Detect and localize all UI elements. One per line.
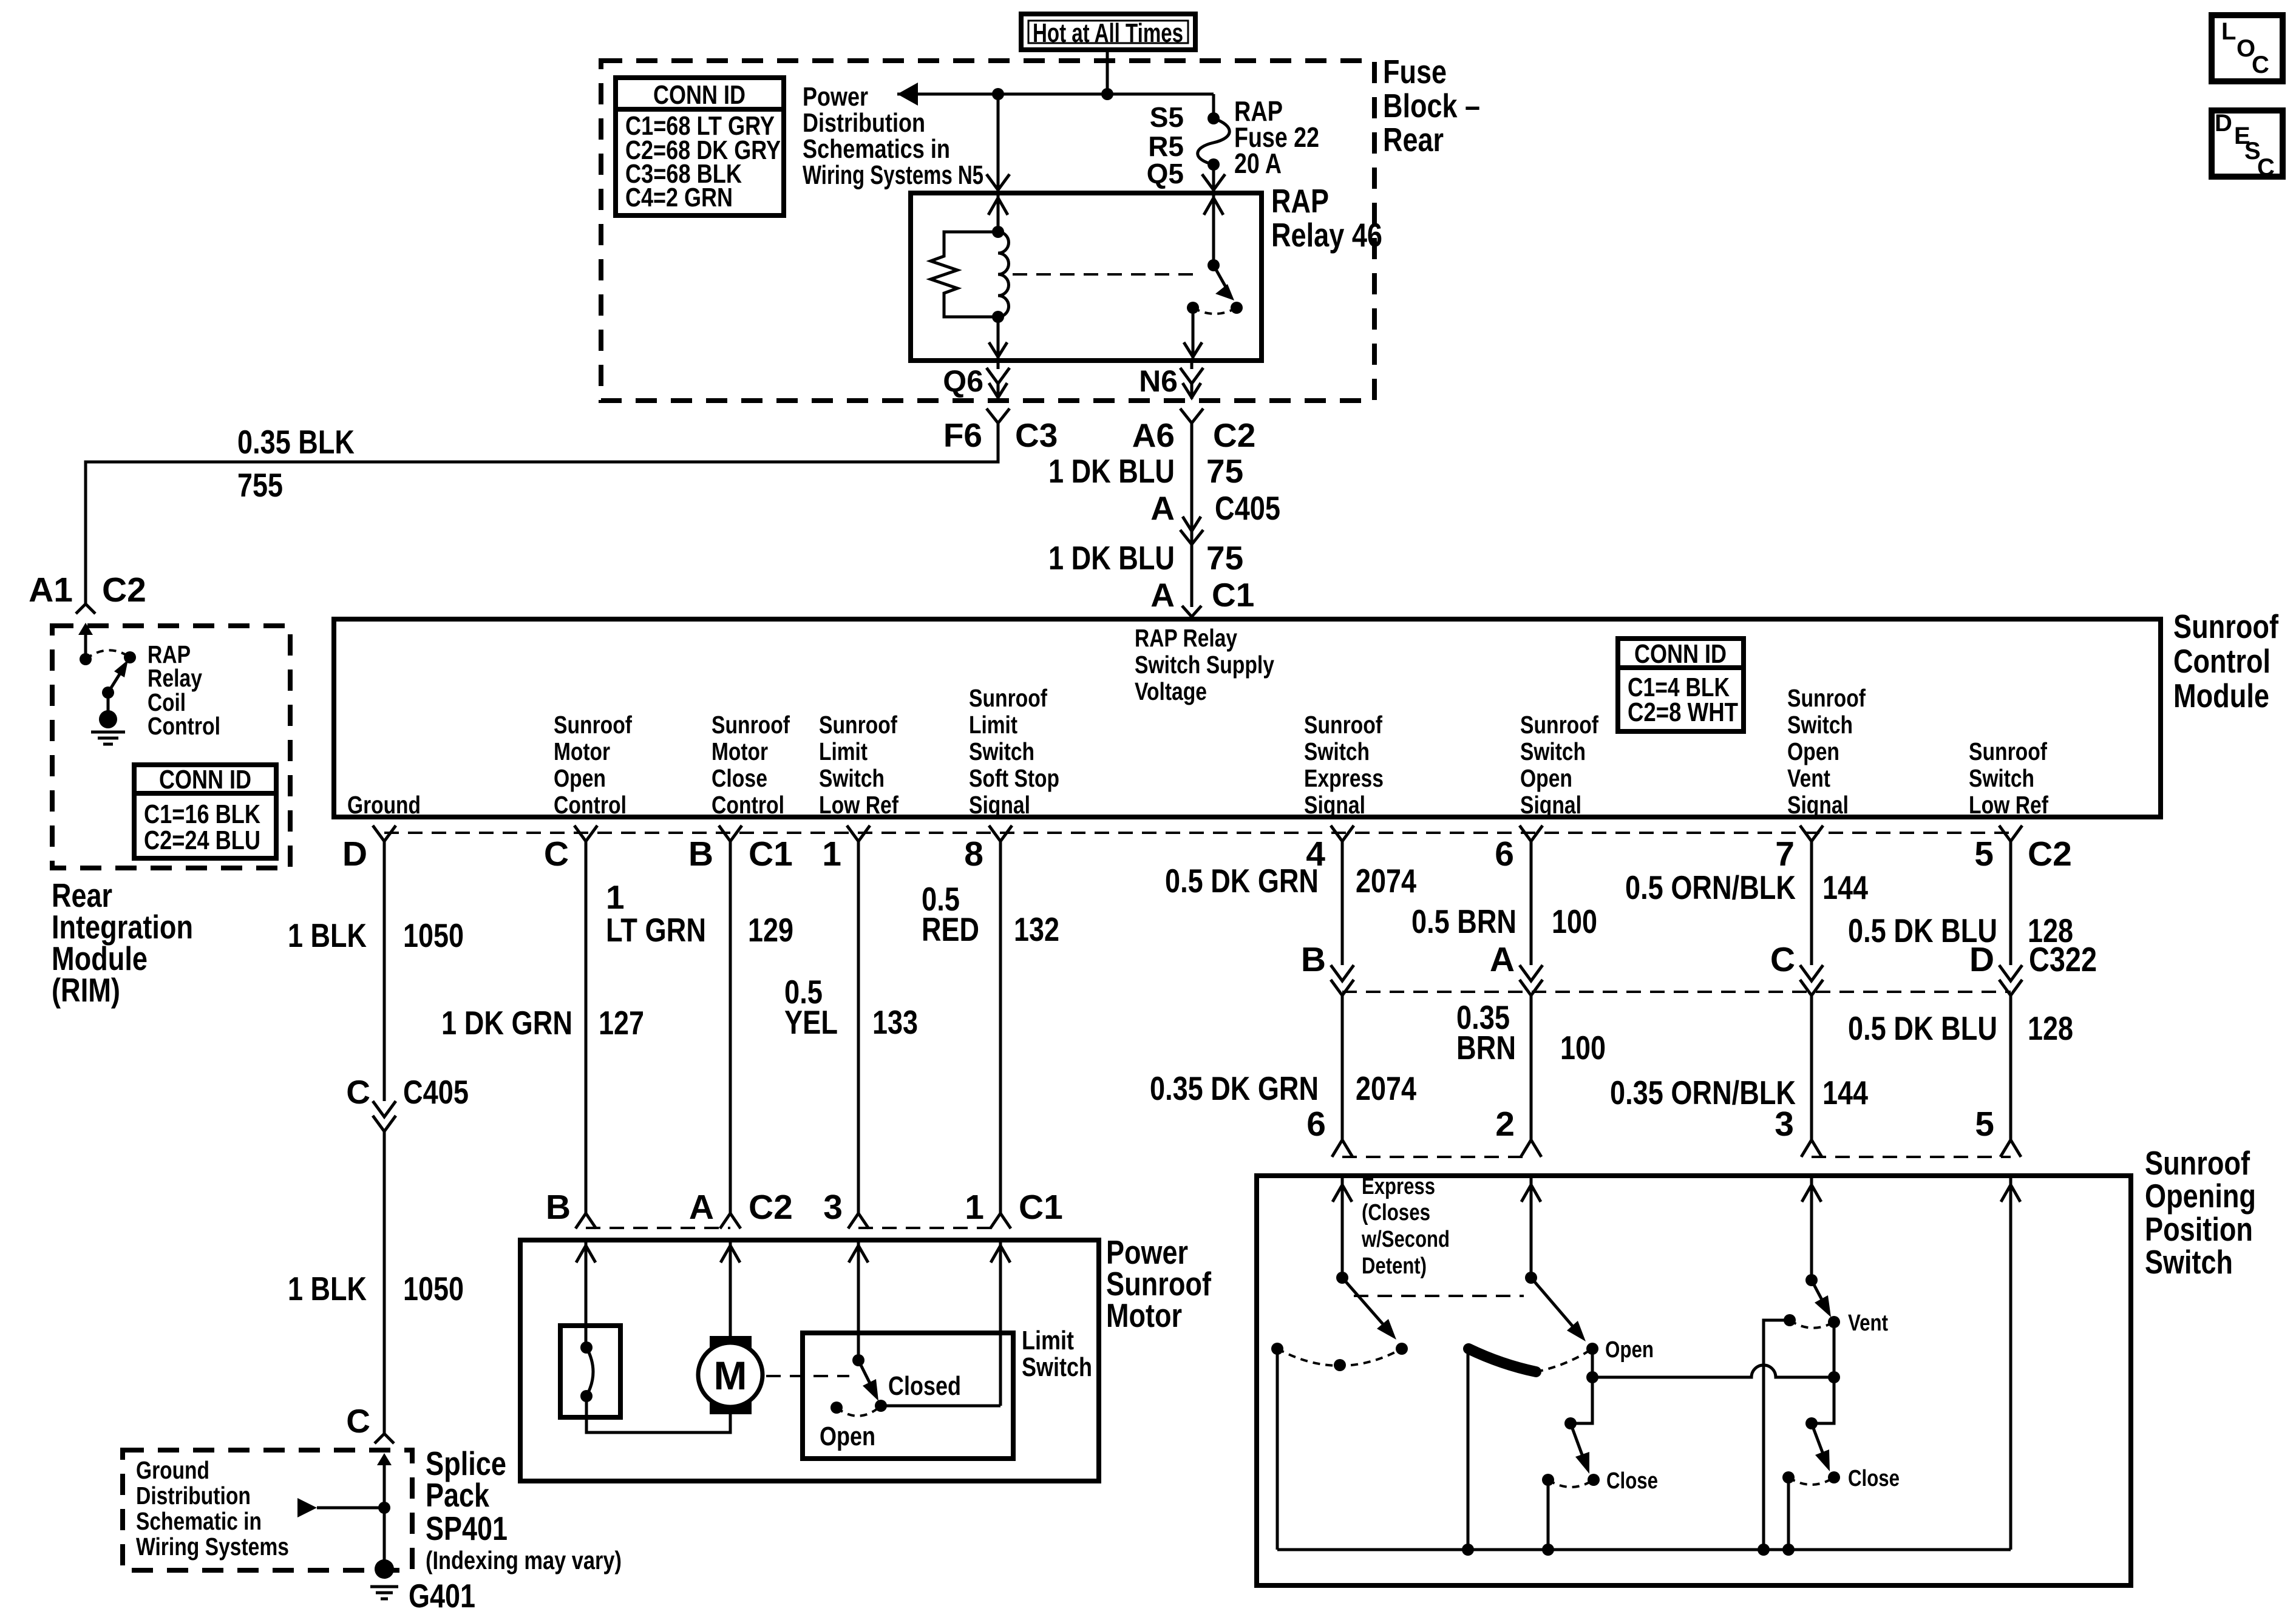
svg-text:Signal: Signal [1304, 791, 1365, 819]
svg-text:RAP Relay: RAP Relay [1135, 624, 1237, 652]
connector chevron at module pin [989, 825, 1012, 841]
motor feed wire entry arrow [721, 1246, 740, 1263]
vent throw dashed arc [1790, 1320, 1834, 1328]
svg-text:C2: C2 [1213, 416, 1255, 454]
in-line connector C322 double chevron [1999, 965, 2022, 981]
svg-text:C405: C405 [403, 1073, 469, 1111]
open switch wire inside [1530, 1176, 1533, 1278]
svg-text:1 DK BLU: 1 DK BLU [1048, 452, 1175, 490]
svg-text:Wiring Systems: Wiring Systems [136, 1533, 289, 1561]
svg-text:0.5 ORN/BLK: 0.5 ORN/BLK [1625, 869, 1796, 906]
wire from bus down to RAP relay coil [997, 94, 1000, 193]
svg-text:C405: C405 [1215, 489, 1280, 527]
ground wire to splice pack [383, 1131, 386, 1434]
wire closed contact to pin 1 wire [881, 1405, 1000, 1408]
svg-text:3: 3 [1775, 1105, 1794, 1144]
sunroof motor open control wire from pin C [585, 841, 588, 1213]
wire to vent close pivot [1812, 1377, 1834, 1423]
Close contact node right [1588, 1474, 1600, 1486]
svg-text:C2: C2 [102, 571, 146, 609]
open switch pivot node [1525, 1272, 1537, 1284]
svg-text:Switch: Switch [2145, 1243, 2233, 1281]
wire open row to vent column with hop [1592, 1365, 1834, 1377]
wire label 0.5 DK GRN 2074 [1165, 862, 1416, 900]
RIM chassis ground symbol [91, 732, 125, 744]
Power Sunroof Motor box [520, 1240, 1099, 1481]
relay switch pivot node [1207, 259, 1220, 271]
svg-text:20 A: 20 A [1234, 147, 1282, 179]
motor feed wire entry arrow [991, 1246, 1010, 1263]
svg-text:Open: Open [1605, 1337, 1654, 1363]
wire label 0.35 DK GRN 2074 [1150, 1070, 1416, 1107]
svg-text:Motor: Motor [1106, 1297, 1182, 1334]
svg-text:Open: Open [554, 764, 606, 792]
splice pack label [426, 1445, 622, 1575]
wire label 0.5 DK BLU 128 [1848, 912, 2073, 949]
svg-text:Control: Control [712, 791, 784, 819]
position switch connector dashed line right [1812, 1156, 2011, 1158]
svg-text:Open: Open [1787, 737, 1839, 765]
svg-text:Voltage: Voltage [1135, 677, 1207, 705]
express label [1361, 1174, 1450, 1279]
LOC reference box [2212, 15, 2283, 81]
open wire to position switch [1530, 995, 1533, 1140]
wire open contact down [1591, 1349, 1594, 1377]
svg-text:BRN: BRN [1456, 1029, 1516, 1066]
vent close switch arm [1812, 1423, 1824, 1456]
svg-text:133: 133 [872, 1003, 918, 1041]
svg-text:Sunroof: Sunroof [819, 711, 897, 739]
svg-text:A6: A6 [1132, 416, 1175, 454]
motor name [1106, 1233, 1212, 1334]
Open contact node [1586, 1343, 1598, 1355]
svg-text:C322: C322 [2029, 940, 2097, 979]
RIM switch pivot node [102, 686, 114, 699]
wire label 1 DK GRN 127 [441, 1004, 644, 1042]
RAP Relay 46 box [911, 193, 1262, 361]
svg-text:(Closes: (Closes [1362, 1200, 1430, 1225]
module pin letters [342, 835, 2072, 873]
in-line connector C405 double chevron [373, 1101, 396, 1117]
pin label RAP Relay Switch Supply Voltage [1135, 624, 1274, 705]
svg-text:1: 1 [606, 878, 625, 916]
Close contact node left [1542, 1474, 1554, 1486]
low ref wire from pin 5 [2009, 841, 2012, 965]
svg-text:D: D [1969, 940, 1994, 979]
wire label 1 DK BLU 75 [1048, 452, 1243, 490]
ground distribution note [136, 1456, 289, 1561]
sunroof motor close control wire from pin B [729, 841, 732, 1213]
svg-text:Signal: Signal [1787, 791, 1849, 819]
svg-text:C: C [346, 1402, 370, 1440]
RIM RAP relay coil control switch contact left [80, 653, 92, 665]
express wire inside [1341, 1176, 1344, 1278]
Vent contact node [1828, 1316, 1840, 1328]
limit switch Open contact node [830, 1402, 843, 1414]
svg-text:Sunroof: Sunroof [1520, 711, 1598, 739]
vent switch pivot node [1805, 1274, 1818, 1286]
svg-text:Hot at All Times: Hot at All Times [1033, 18, 1183, 48]
bus junction node close [1542, 1544, 1554, 1556]
svg-text:Fuse: Fuse [1383, 53, 1447, 90]
svg-text:755: 755 [237, 466, 283, 504]
connector chevron entering position switch [1801, 1140, 1822, 1157]
junction node vent column [1828, 1371, 1840, 1383]
motor connector dashed line C1 [858, 1227, 1000, 1229]
svg-text:Module: Module [2173, 677, 2269, 714]
relay contact node right [1231, 302, 1243, 314]
svg-text:C3: C3 [1015, 416, 1058, 454]
connector chevron below fuse block Q6 [987, 408, 1010, 423]
brush assembly wire [585, 1240, 588, 1347]
svg-text:129: 129 [748, 911, 793, 949]
svg-text:C2=8 WHT: C2=8 WHT [1628, 697, 1738, 727]
svg-text:1 DK GRN: 1 DK GRN [441, 1004, 572, 1042]
svg-text:C2=24 BLU: C2=24 BLU [144, 825, 260, 855]
junction node open row [1586, 1371, 1598, 1383]
relay coil winding [998, 232, 1009, 317]
svg-text:0.35 BLK: 0.35 BLK [237, 423, 355, 461]
svg-text:G401: G401 [409, 1577, 475, 1615]
svg-text:RED: RED [922, 910, 979, 948]
svg-text:Limit: Limit [819, 737, 868, 765]
svg-text:132: 132 [1014, 910, 1059, 948]
bus junction node vent close [1782, 1544, 1795, 1556]
svg-text:C1: C1 [749, 835, 793, 873]
position switch connector dashed line left [1342, 1156, 1531, 1158]
wire vent contact down to junction [1833, 1322, 1836, 1377]
vent wire to position switch [1810, 995, 1813, 1140]
DESC reference box [2212, 110, 2283, 181]
svg-text:w/Second: w/Second [1361, 1227, 1450, 1252]
wire close contact to bus [1547, 1480, 1550, 1550]
low ref wire to position switch [2009, 995, 2012, 1140]
svg-text:C2: C2 [749, 1188, 793, 1227]
svg-text:Sunroof: Sunroof [712, 711, 790, 739]
svg-text:Ground: Ground [347, 791, 421, 819]
svg-text:Ground: Ground [136, 1456, 209, 1484]
svg-text:Switch: Switch [1520, 737, 1586, 765]
ground G401 node [375, 1559, 394, 1579]
fuse block dashed border [601, 61, 1374, 401]
svg-text:Limit: Limit [969, 711, 1017, 739]
wire label 1 BLK 1050 lower [288, 1270, 464, 1307]
connector chevron below fuse block N6 [1180, 408, 1203, 423]
RIM switch throw dashed arc [86, 650, 130, 659]
vent contact node left [1784, 1314, 1796, 1326]
svg-text:Switch: Switch [1022, 1352, 1092, 1382]
soft stop signal wire from pin 8 [999, 841, 1002, 1213]
svg-text:Control: Control [148, 712, 220, 740]
svg-text:1 BLK: 1 BLK [288, 917, 367, 954]
svg-text:Sunroof: Sunroof [2173, 608, 2279, 645]
svg-text:1: 1 [822, 835, 841, 873]
svg-text:Control: Control [2173, 642, 2271, 680]
relay coil top node [992, 226, 1004, 238]
motor pin letters B A C2 3 1 C1 [546, 1188, 1063, 1227]
pin label Sunroof Switch Express Signal [1304, 711, 1384, 819]
motor feed wire entry arrow [849, 1246, 868, 1263]
svg-text:C: C [346, 1073, 370, 1111]
relay output wire N6 [1190, 361, 1194, 369]
svg-text:Motor: Motor [554, 737, 610, 765]
pin label F6 | C3 [943, 416, 1058, 454]
in-line connector C322 double chevron [1331, 965, 1354, 981]
connector chevron entering position switch [2000, 1140, 2021, 1157]
svg-text:Q5: Q5 [1147, 158, 1184, 189]
svg-text:Power: Power [803, 82, 868, 112]
bus junction node wiper [1462, 1544, 1474, 1556]
svg-text:128: 128 [2028, 1009, 2073, 1047]
Sunroof Control Module box [334, 619, 2161, 817]
svg-text:A: A [1150, 576, 1175, 614]
svg-text:0.5 BRN: 0.5 BRN [1411, 903, 1517, 940]
wire pivot to ground [107, 693, 110, 719]
svg-text:F6: F6 [943, 416, 982, 454]
wire label 0.5 RED 132 [922, 880, 1059, 948]
wire wiper to bus [1467, 1349, 1470, 1550]
vent switch arm [1812, 1280, 1823, 1302]
module name [2173, 608, 2279, 714]
connector chevron at module pin [1999, 825, 2022, 841]
low ref wire inside to bus [2009, 1176, 2012, 1550]
RAP Relay Coil Control label [148, 640, 220, 740]
svg-text:CONN ID: CONN ID [653, 80, 746, 110]
svg-text:C1=16 BLK: C1=16 BLK [144, 799, 260, 829]
brush arc [586, 1347, 593, 1396]
express contact node left [1271, 1343, 1283, 1355]
RAP Fuse 22 element [1198, 118, 1230, 164]
brush contact node bottom [580, 1390, 593, 1402]
svg-text:Switch: Switch [1304, 737, 1370, 765]
svg-text:Schematic in: Schematic in [136, 1507, 262, 1535]
connector chevron entering motor [576, 1213, 596, 1229]
wire to close pivot left jog [1571, 1377, 1592, 1423]
vent close pivot node [1805, 1417, 1818, 1429]
wire brush to motor bottom [586, 1396, 730, 1432]
svg-text:Closed: Closed [888, 1371, 961, 1401]
svg-text:Limit: Limit [1022, 1326, 1074, 1355]
Sunroof Opening Position Switch box [1257, 1176, 2131, 1585]
svg-text:Relay 46: Relay 46 [1271, 216, 1382, 254]
vent signal wire from pin 7 [1810, 841, 1813, 965]
svg-text:6: 6 [1306, 1105, 1326, 1144]
pin label Sunroof Switch Low Ref [1969, 737, 2048, 819]
express contact node middle [1334, 1359, 1346, 1371]
vent Close contact node left [1782, 1471, 1795, 1483]
svg-text:C1: C1 [1212, 576, 1254, 614]
limit switch box [803, 1333, 1013, 1459]
connector chevron at module pin [1331, 825, 1354, 841]
svg-text:Sunroof: Sunroof [554, 711, 632, 739]
connector chevron entering position switch [1521, 1140, 1541, 1157]
svg-text:0.5 DK BLU: 0.5 DK BLU [1848, 1009, 1997, 1047]
connector chevron at module pin [847, 825, 870, 841]
motor feed wire entry arrow [576, 1246, 596, 1263]
svg-text:(RIM): (RIM) [52, 971, 120, 1009]
relay switch arm [1214, 265, 1228, 290]
limit switch common wire from pin 3 [857, 1240, 860, 1360]
svg-text:Open: Open [1520, 764, 1572, 792]
limit switch arm [858, 1360, 871, 1386]
wire from fuse to relay [1212, 164, 1215, 193]
svg-text:Close: Close [1606, 1468, 1658, 1494]
pin label Sunroof Limit Switch Low Ref [819, 711, 898, 819]
wire label 1 BLK 1050 [288, 917, 464, 954]
limit switch low ref wire from pin 1 [857, 841, 860, 1213]
in-line connector C405 [1183, 517, 1201, 531]
svg-text:Close: Close [712, 764, 767, 792]
wire label 0.35 ORN/BLK 144 [1610, 1074, 1868, 1111]
RIM internal ground node [99, 710, 117, 728]
wire vent close contact to bus [1787, 1477, 1790, 1550]
fuse block name [1383, 53, 1480, 158]
wire label 0.5 BRN 100 [1411, 903, 1597, 940]
motor M symbol [698, 1336, 763, 1414]
connector chevron at module entry [1182, 606, 1201, 617]
svg-text:Pack: Pack [426, 1476, 489, 1514]
connector chevron entering motor [848, 1213, 869, 1229]
open switch arm [1531, 1278, 1575, 1329]
svg-text:B: B [688, 835, 713, 873]
pin label Sunroof Switch Open Vent Signal [1787, 684, 1866, 819]
svg-text:C: C [2252, 52, 2269, 78]
brush assembly box [560, 1326, 620, 1417]
svg-text:B: B [1301, 940, 1326, 979]
connector symbol entering splice pack [375, 1434, 394, 1443]
svg-text:3: 3 [823, 1188, 843, 1227]
close throw dashed arc [1548, 1480, 1594, 1487]
svg-text:L: L [2221, 18, 2236, 45]
close switch arm [1571, 1423, 1583, 1458]
svg-text:N6: N6 [1139, 364, 1178, 398]
svg-text:Express: Express [1304, 764, 1384, 792]
svg-text:Switch Supply: Switch Supply [1135, 651, 1274, 679]
svg-text:Position: Position [2145, 1210, 2253, 1248]
svg-text:SP401: SP401 [426, 1510, 508, 1547]
splice pack junction node [378, 1502, 390, 1514]
svg-text:Switch: Switch [819, 764, 885, 792]
svg-text:Switch: Switch [969, 737, 1034, 765]
svg-text:Control: Control [554, 791, 627, 819]
RIM switch arm with arrowhead [108, 671, 121, 693]
wire label 0.5 DK BLU 128 lower [1848, 1009, 2073, 1047]
connector chevron entering motor [990, 1213, 1011, 1229]
svg-text:100: 100 [1560, 1029, 1606, 1066]
svg-text:0.35 ORN/BLK: 0.35 ORN/BLK [1610, 1074, 1796, 1111]
svg-text:5: 5 [1975, 1105, 1994, 1144]
svg-text:Sunroof: Sunroof [969, 684, 1047, 712]
svg-text:Low Ref: Low Ref [819, 791, 898, 819]
position switch ground bus [1277, 1548, 2011, 1551]
relay coil bottom node [992, 311, 1004, 323]
wire N6 down to module pin A [1190, 423, 1194, 607]
svg-text:C4=2 GRN: C4=2 GRN [625, 183, 733, 212]
svg-text:8: 8 [964, 835, 983, 873]
svg-text:M: M [714, 1353, 747, 1398]
svg-text:Sunroof: Sunroof [2145, 1144, 2250, 1182]
wire vent left contact to bus [1764, 1320, 1790, 1550]
wiper thick arc [1469, 1349, 1536, 1372]
RIM dashed border [52, 626, 290, 868]
position switch name [2145, 1144, 2256, 1281]
connector C322 dashed line [1342, 991, 2011, 993]
svg-text:2: 2 [1495, 1105, 1515, 1144]
C322 pin letters [1301, 940, 2097, 979]
wire F6 corner left to RIM [86, 423, 998, 604]
svg-text:75: 75 [1206, 539, 1243, 577]
svg-text:C: C [544, 835, 569, 873]
express signal wire from pin 4 [1341, 841, 1344, 965]
junction node below Hot at All Times [1101, 88, 1113, 100]
ground distribution dashed box [123, 1450, 412, 1570]
svg-text:YEL: YEL [784, 1003, 838, 1041]
wire label 0.5 YEL 133 [784, 973, 918, 1041]
relay switch throw dashed arc [1193, 308, 1237, 314]
svg-text:Low Ref: Low Ref [1969, 791, 2048, 819]
other-circuits pointer triangle [297, 1498, 317, 1517]
mechanical link dashed line [1354, 1295, 1524, 1297]
position switch pin numbers 6 2 3 5 [1306, 1105, 1994, 1144]
relay actuating dashed link [1013, 273, 1201, 276]
vent Close contact node right [1828, 1471, 1840, 1483]
pin label A | C405 [1150, 489, 1280, 527]
ground wire from pin D [383, 841, 386, 1101]
power distribution note [803, 82, 983, 190]
svg-text:0.35 DK GRN: 0.35 DK GRN [1150, 1070, 1319, 1107]
wiper arc dashed continuation [1536, 1349, 1592, 1372]
motor connector dashed line C2 [586, 1227, 730, 1229]
vent close throw dashed arc [1788, 1477, 1834, 1485]
relay name label [1271, 182, 1382, 254]
svg-text:Vent: Vent [1848, 1310, 1888, 1336]
brush contact node top [580, 1341, 593, 1354]
wire from coil to relay box bottom [997, 317, 1000, 361]
svg-text:Detent): Detent) [1362, 1253, 1427, 1279]
horizontal bus wire inside fuse block [897, 93, 1214, 96]
pin label A | C1 [1150, 576, 1254, 614]
open signal wire from pin 6 [1530, 841, 1533, 965]
svg-text:Schematics in: Schematics in [803, 134, 950, 164]
limit switch name [1022, 1326, 1092, 1382]
svg-text:1050: 1050 [403, 917, 464, 954]
pin label Sunroof Limit Switch Soft Stop Signal [969, 684, 1059, 819]
svg-text:Vent: Vent [1787, 764, 1830, 792]
svg-text:75: 75 [1206, 452, 1243, 490]
svg-text:Close: Close [1848, 1466, 1900, 1491]
express throw dashed arc [1277, 1349, 1402, 1366]
svg-text:0.5 DK GRN: 0.5 DK GRN [1165, 862, 1319, 900]
svg-text:Signal: Signal [1520, 791, 1581, 819]
pin label Sunroof Switch Open Signal [1520, 711, 1598, 819]
svg-text:144: 144 [1822, 1074, 1868, 1111]
svg-text:1 DK BLU: 1 DK BLU [1048, 539, 1175, 577]
wire from relay contact to box bottom [1192, 308, 1195, 361]
pin label A1 | C2 [29, 571, 146, 609]
pin label Sunroof Motor Open Control [554, 711, 632, 819]
fuse terminal node Q5 [1207, 158, 1220, 171]
wire from bus corner down to fuse [1212, 94, 1215, 118]
relay output wire Q6 [997, 361, 1000, 369]
soft stop wire from pin 1 [999, 1240, 1002, 1406]
svg-text:A: A [689, 1188, 714, 1227]
fuse block CONN ID table [616, 78, 784, 215]
wire label 0.5 ORN/BLK 144 [1625, 869, 1868, 906]
wire label 0.35 BRN 100 [1456, 998, 1606, 1066]
svg-text:C: C [1770, 940, 1795, 979]
G401 chassis ground symbol [370, 1587, 398, 1599]
connector chevron at module pin [1520, 825, 1543, 841]
